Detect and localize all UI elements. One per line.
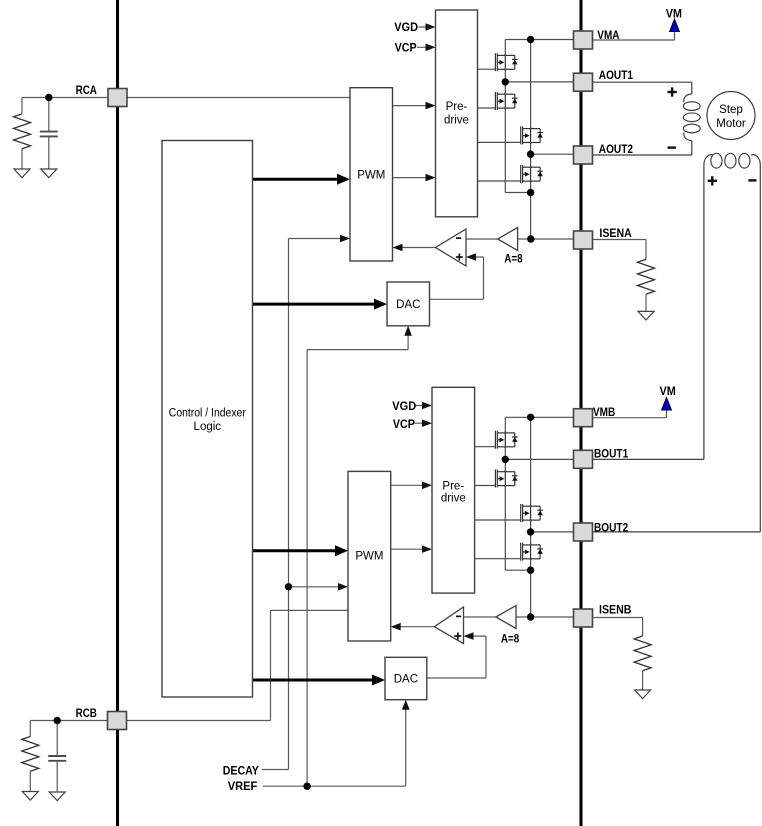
svg-text:VMA: VMA xyxy=(597,30,619,42)
svg-text:ISENB: ISENB xyxy=(599,605,631,617)
svg-text:BOUT1: BOUT1 xyxy=(594,449,629,461)
svg-text:VM: VM xyxy=(660,386,676,398)
svg-text:VGD: VGD xyxy=(394,22,418,34)
svg-text:DAC: DAC xyxy=(396,299,420,311)
svg-text:Control / Indexer: Control / Indexer xyxy=(169,408,246,420)
svg-text:RCB: RCB xyxy=(76,708,97,720)
svg-text:drive: drive xyxy=(444,115,469,127)
svg-text:PWM: PWM xyxy=(355,551,383,563)
svg-text:RCA: RCA xyxy=(76,85,97,97)
svg-text:AOUT2: AOUT2 xyxy=(599,144,633,156)
svg-text:A=8: A=8 xyxy=(504,253,523,265)
svg-text:PWM: PWM xyxy=(357,170,385,182)
svg-text:DAC: DAC xyxy=(394,674,418,686)
svg-text:VCP: VCP xyxy=(395,42,417,54)
svg-text:VCP: VCP xyxy=(393,419,415,431)
svg-text:VGD: VGD xyxy=(392,401,416,413)
svg-text:Pre-: Pre- xyxy=(442,480,464,492)
svg-text:Pre-: Pre- xyxy=(446,101,468,113)
svg-text:VREF: VREF xyxy=(228,781,258,793)
svg-text:ISENA: ISENA xyxy=(599,228,631,240)
svg-text:VMB: VMB xyxy=(593,407,615,419)
svg-text:drive: drive xyxy=(441,492,466,504)
svg-text:Step: Step xyxy=(719,104,743,116)
svg-text:AOUT1: AOUT1 xyxy=(599,70,634,82)
svg-text:Logic: Logic xyxy=(194,421,222,433)
svg-text:Motor: Motor xyxy=(716,118,746,130)
svg-text:A=8: A=8 xyxy=(501,634,520,646)
svg-text:DECAY: DECAY xyxy=(223,765,260,777)
svg-text:VM: VM xyxy=(666,8,682,20)
svg-text:BOUT2: BOUT2 xyxy=(594,522,628,534)
